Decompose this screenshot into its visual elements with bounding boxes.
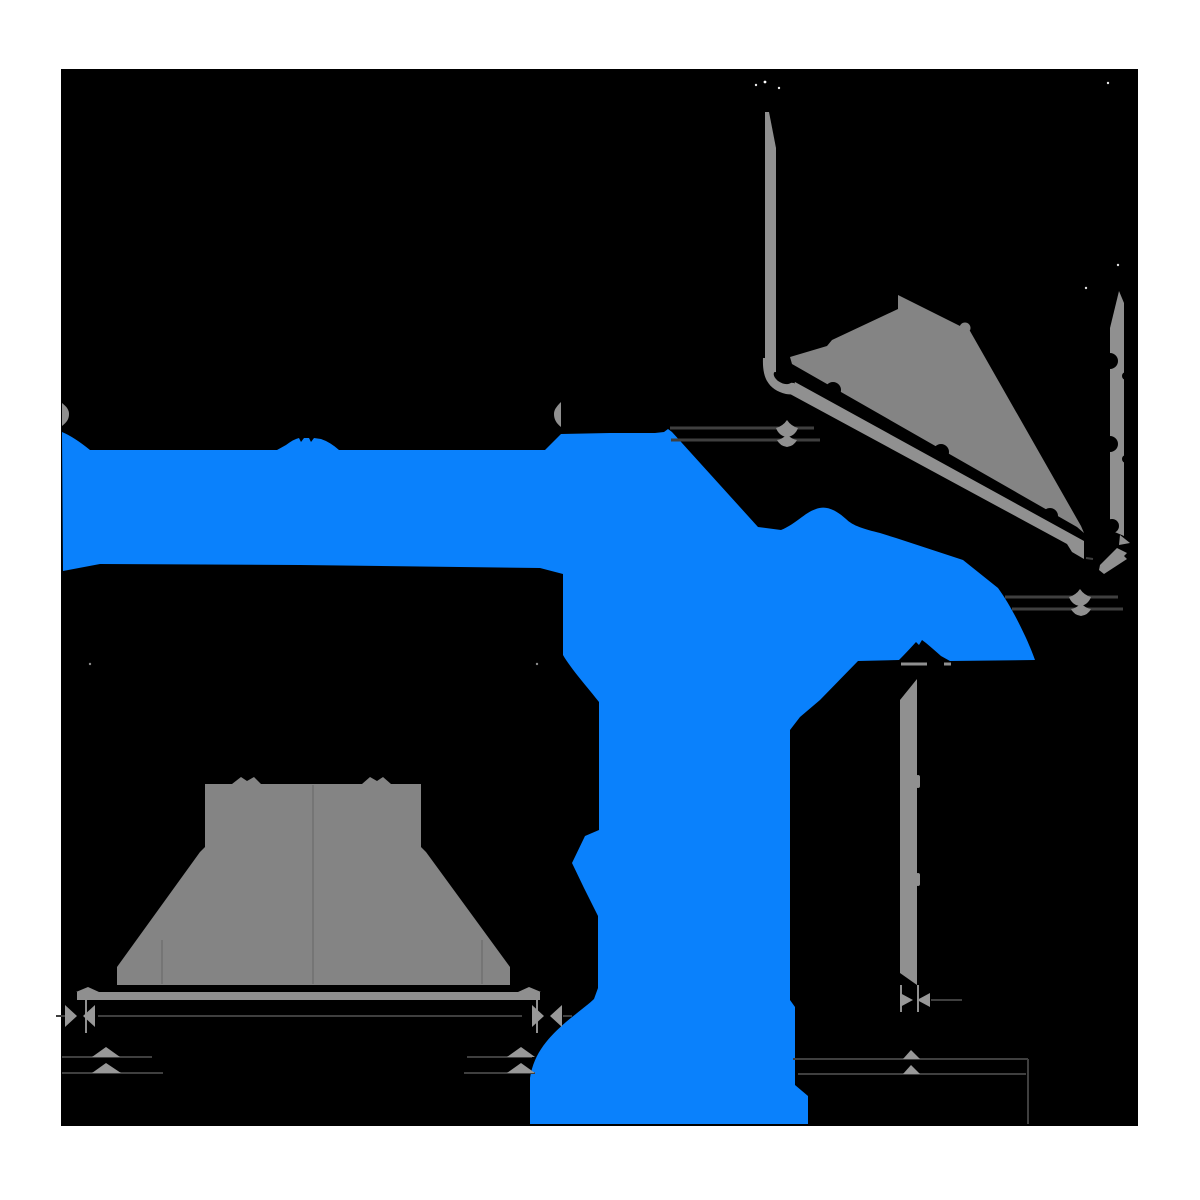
right bar dash gap 1 [1102, 353, 1118, 369]
white speck 1 [755, 84, 757, 86]
break dome (right lower) [1071, 603, 1091, 616]
pole nub 1 [916, 775, 920, 788]
dimension line with break mark (upper left of shade) [670, 427, 814, 430]
white speck 7 [89, 663, 91, 665]
break mark dome (upper) [776, 420, 798, 437]
right bar dash gap 2 [1102, 436, 1118, 452]
break mark dome 2 [777, 434, 797, 447]
shade vent notch 1 [825, 382, 841, 398]
shade mouth corner gap (black) [771, 367, 794, 387]
ground line mid-right 2 [464, 1072, 535, 1074]
base rim bevel right tip [518, 987, 541, 992]
shade tip small dark dash [1086, 558, 1093, 559]
ground triangle bottom-right 1 [903, 1050, 920, 1059]
base width arrow stub left [56, 1015, 65, 1017]
shade vent notch 3 [1042, 508, 1058, 524]
right bar right-edge dent 1 [1122, 372, 1130, 380]
base rim bevel left tip [76, 987, 99, 992]
dimension line 2 with break (right lower) [1012, 608, 1123, 611]
shade rim strip [790, 382, 1084, 559]
ground line left 1 [62, 1056, 152, 1058]
gray line under blue peak bump [901, 663, 927, 666]
ground triangle bottom-right 2 [903, 1065, 920, 1074]
ground line left 2 [62, 1072, 163, 1074]
ground triangle mid-right 1 [507, 1047, 535, 1057]
white speck 2 [764, 81, 767, 84]
ground line bottom-right 1 [793, 1058, 1028, 1060]
shade mouth corner crescent [763, 358, 798, 394]
shade knob bump on top edge [960, 323, 971, 334]
parenthesis mark left (dimension end) [62, 403, 69, 426]
white speck 6 [1085, 287, 1087, 289]
base fold seam left [161, 940, 163, 984]
lamp shade cone (gray) [790, 295, 1084, 533]
right bar bottom notch [1105, 519, 1119, 533]
lamp pole (vertical bar) [900, 679, 917, 985]
right vertical bar [1110, 291, 1124, 536]
white speck 8 [536, 663, 538, 665]
white speck 4 [1107, 82, 1109, 84]
lamp arm (blue swoosh) [62, 429, 1035, 1124]
pole diameter tail line [931, 999, 962, 1001]
break dome (right upper) [1069, 589, 1091, 606]
ground triangle mid-right 2 [507, 1063, 535, 1073]
pole diameter extension lines [901, 985, 918, 1012]
dimension line with break (right of head, upper) [1005, 596, 1118, 599]
shade hanger bar (left vertical) [765, 112, 776, 373]
base center seam [312, 785, 314, 984]
base width arrow stub right [563, 1015, 572, 1017]
base width arrow bowtie right [532, 1005, 562, 1027]
ground line mid-right 1 [467, 1056, 532, 1058]
base width extension line right [536, 999, 538, 1033]
white speck 3 [778, 87, 780, 89]
dimension line 2 with break mark [671, 439, 820, 442]
black panel background [61, 69, 1138, 1126]
pole nub 2 [916, 873, 920, 886]
small dash right of it [944, 663, 951, 666]
white speck 5 [1117, 264, 1119, 266]
right bar lower wedge [1119, 535, 1130, 545]
lamp base body [117, 777, 510, 985]
base width dimension line [98, 1015, 522, 1017]
base width arrow bowtie left [65, 1005, 95, 1027]
base bottom rim bar [77, 992, 540, 1000]
vertical line bottom-right corner [1027, 1059, 1029, 1124]
shade vent notch 2 [933, 444, 949, 460]
parenthesis mark right (dimension end) [554, 402, 561, 427]
ground triangle left 1 [92, 1047, 120, 1057]
pole diameter arrow bowtie [900, 993, 930, 1007]
ground line bottom-right 2 [798, 1073, 1026, 1075]
base fold seam right [481, 940, 483, 984]
right bar right-edge dent 2 [1122, 455, 1130, 463]
base width extension line left [85, 999, 87, 1033]
shade tip cap piece [1099, 548, 1127, 574]
ground triangle left 2 [92, 1063, 121, 1073]
